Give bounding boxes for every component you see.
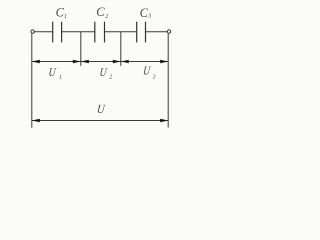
svg-text:1: 1 [59,75,62,81]
svg-text:U: U [48,66,57,79]
wire left extension [31,34,33,128]
wire [34,31,52,33]
label U [96,102,106,116]
svg-text:3: 3 [147,13,151,19]
svg-text:C: C [96,5,105,19]
svg-text:U: U [96,102,106,116]
terminal right [167,30,170,33]
label U3 [142,65,155,81]
dimension U3 arrows [121,60,168,63]
svg-text:C: C [140,6,149,20]
dimension U2 arrows [81,60,121,63]
label C3 [140,6,152,20]
svg-text:U: U [99,66,108,79]
label C2 [96,5,108,20]
node B extension line [120,32,122,66]
svg-text:3: 3 [152,75,156,81]
capacitor C1 [53,22,62,43]
svg-text:1: 1 [64,14,67,20]
svg-text:U: U [142,65,151,78]
label C1 [56,5,67,20]
terminal left [31,30,34,33]
wire right extension [167,34,169,128]
dimension U total arrows [32,119,168,122]
svg-text:2: 2 [109,75,112,81]
svg-text:2: 2 [105,14,108,20]
label U2 [99,66,112,80]
wire [62,31,95,33]
wire [105,31,137,33]
node A extension line [80,32,82,66]
wire [146,31,168,33]
capacitor C2 [95,22,105,43]
capacitor C3 [137,22,146,43]
label U1 [48,66,62,81]
dimension U1 arrows [32,60,81,63]
